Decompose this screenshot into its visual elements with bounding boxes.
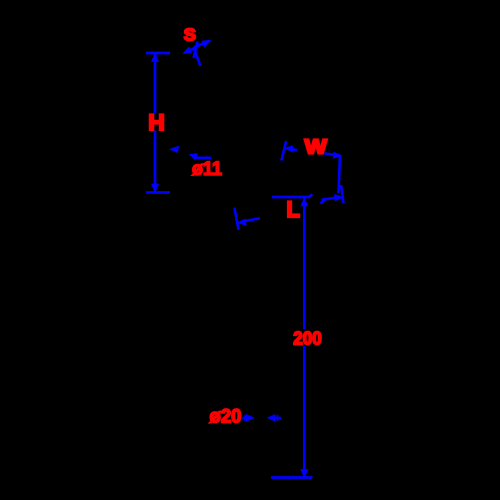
extension line 200 bottom [271,476,310,479]
dimension H [146,53,170,193]
arrow tail W right [324,153,336,155]
extension line L left [234,208,238,230]
arrowhead W right [333,152,342,158]
arrow tail o20 right [274,417,281,420]
arrowhead W left [284,146,292,152]
svg-text:H: H [148,110,164,135]
leader shoulder o11 [195,157,212,160]
tick 200 top right [310,195,313,197]
extension line H top [146,52,170,55]
dimension line 200 lower segment [303,346,306,477]
arrowhead S up-right [202,40,210,47]
leader o11 [170,146,211,160]
svg-text:S: S [184,25,196,45]
dimension 200 (vertical) [271,195,313,479]
arrowhead L right [335,195,343,201]
arrowhead L left [238,219,247,225]
arrow tail L right [322,198,336,200]
arrow stroke S up-right [194,42,206,47]
arrowhead 200 down [301,470,308,478]
extension line L right [341,185,344,203]
dimension S (slanted thickness callout) [183,40,211,66]
arrow tail W left [290,149,297,150]
dimension line 200 upper segment [303,198,306,329]
extension line 200 top [272,196,310,199]
arrowhead S down-left [183,47,191,53]
tick o20 right [277,415,279,421]
extension tick S upper [194,42,198,59]
dimension line H upper segment [154,54,157,114]
slash tick L left end [321,199,327,204]
svg-text:ø11: ø11 [192,159,222,180]
extension tick S lower [194,48,201,67]
arrowhead H up [152,54,159,62]
arrowhead 200 up [301,198,308,206]
extension line H bottom [146,191,170,194]
svg-text:W: W [305,137,327,159]
dimension W (aligned) [281,141,341,193]
arrowhead o20 right-pointing [246,415,254,422]
arrow stroke S down-left [187,48,196,52]
dimension o20 arrows [243,415,282,422]
svg-text:200: 200 [293,328,322,349]
tick o20 left [244,415,246,421]
dimension line H lower segment [154,131,157,192]
arrowhead o11 outer [170,146,179,152]
dimension L (slanted) [234,185,343,230]
arrow tail o20 left [243,417,249,420]
tick 200 bottom right [310,477,313,479]
arrow tail L left [242,218,260,221]
arrowhead o11 inner [190,154,198,160]
arrowhead o20 left-pointing [268,415,276,422]
svg-text:ø20: ø20 [210,406,242,428]
svg-text:L: L [287,197,301,222]
arrowhead H down [152,184,159,192]
extension line W right [339,156,341,194]
extension line W left [281,141,286,161]
